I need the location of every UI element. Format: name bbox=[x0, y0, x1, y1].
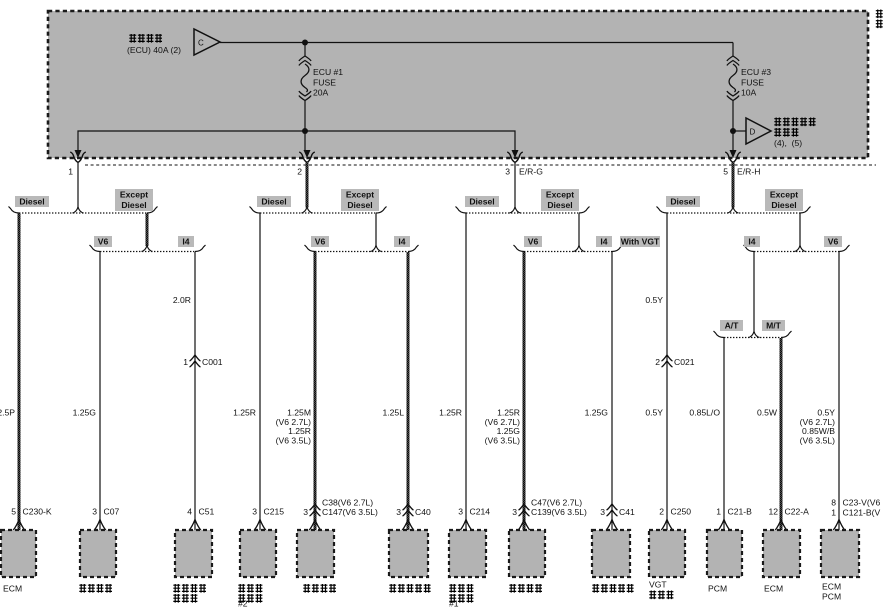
svg-text:Except: Except bbox=[770, 190, 798, 200]
svg-text:ECM: ECM bbox=[764, 584, 783, 594]
connector C51 bbox=[187, 507, 214, 517]
connector C07 bbox=[92, 507, 119, 517]
box PCM bbox=[707, 530, 742, 577]
wire 0.5W to ECM (thick) bbox=[780, 338, 783, 530]
svg-text:C121-B(V: C121-B(V bbox=[843, 508, 881, 518]
wire bbox=[732, 100, 734, 150]
svg-text:C38(V6 2.7L): C38(V6 2.7L) bbox=[322, 498, 373, 508]
fuse ECU #1 20A bbox=[299, 56, 311, 101]
brace group3 Diesel/Except bbox=[456, 207, 590, 214]
label V6 g1 bbox=[94, 236, 112, 247]
svg-text:Except: Except bbox=[120, 190, 148, 200]
engine room junction box (dashed gray) bbox=[48, 11, 868, 158]
svg-text:Diesel: Diesel bbox=[121, 200, 146, 210]
svg-text:C001: C001 bbox=[202, 357, 223, 367]
brace group4 I4/V6 bbox=[744, 245, 850, 252]
fork into box 12 bbox=[775, 520, 787, 531]
svg-text:ECM: ECM bbox=[3, 584, 22, 594]
svg-text:With VGT: With VGT bbox=[621, 237, 660, 247]
svg-text:5: 5 bbox=[11, 507, 16, 517]
box ignition coil bbox=[80, 530, 116, 577]
node: junction at fuse1 top bbox=[302, 40, 308, 46]
label ignition failure sensor bbox=[173, 584, 206, 603]
wire g4 except feed bbox=[799, 214, 801, 247]
svg-text:V6: V6 bbox=[828, 237, 839, 247]
label heater relay #2 bbox=[238, 584, 262, 609]
box ECM 2 bbox=[763, 530, 800, 577]
svg-text:Diesel: Diesel bbox=[771, 200, 796, 210]
label front O2 sensor bbox=[389, 584, 430, 593]
box ECM bbox=[1, 530, 36, 577]
svg-text:PCM: PCM bbox=[708, 584, 727, 594]
box front O2 sensor bbox=[389, 530, 428, 577]
svg-text:10A: 10A bbox=[741, 88, 757, 98]
svg-text:1: 1 bbox=[716, 507, 721, 517]
fork into box 11 bbox=[718, 520, 730, 531]
label 1.25M quad bbox=[276, 408, 311, 446]
node: junction on bus bbox=[302, 128, 308, 134]
svg-text:1: 1 bbox=[831, 508, 836, 518]
brace group2 Diesel/Except bbox=[250, 207, 387, 214]
svg-text:3: 3 bbox=[92, 507, 97, 517]
svg-text:(V6 3.5L): (V6 3.5L) bbox=[800, 435, 835, 445]
label: from fusible link (ECU) 40A (2) bbox=[127, 34, 181, 55]
label 0.5Y quad bbox=[800, 408, 836, 446]
label 1.25G w9 bbox=[585, 408, 609, 418]
svg-text:4: 4 bbox=[187, 507, 192, 517]
brace group4 A/T/M/T bbox=[714, 331, 792, 338]
svg-text:(V6 3.5L): (V6 3.5L) bbox=[485, 435, 520, 445]
label I4 g3 bbox=[596, 236, 612, 247]
wire 1.25R to heater relay 2 bbox=[259, 214, 261, 531]
svg-text:Except: Except bbox=[346, 190, 374, 200]
label Except Diesel g1 bbox=[115, 189, 153, 211]
label V6 g3 bbox=[524, 236, 542, 247]
svg-text:3: 3 bbox=[252, 507, 257, 517]
wire 1.25M/R to O2 sensor (thick) bbox=[314, 252, 317, 530]
svg-text:3: 3 bbox=[303, 507, 308, 517]
wire 0.5Y to VGT actuator bbox=[666, 214, 668, 531]
svg-text:C147(V6 3.5L): C147(V6 3.5L) bbox=[322, 507, 378, 517]
exit terminal 1 bbox=[68, 150, 86, 177]
svg-text:I4: I4 bbox=[398, 237, 405, 247]
svg-text:Except: Except bbox=[546, 190, 574, 200]
svg-text:C41: C41 bbox=[619, 507, 635, 517]
dashed boundary line bbox=[85, 164, 876, 166]
box VGT actuator bbox=[649, 530, 685, 577]
svg-text:1.25L: 1.25L bbox=[382, 408, 404, 418]
label Diesel g2 bbox=[257, 196, 291, 207]
label Diesel g3 bbox=[465, 196, 499, 207]
svg-text:C215: C215 bbox=[264, 507, 285, 517]
svg-text:V6: V6 bbox=[315, 237, 326, 247]
svg-text:Diesel: Diesel bbox=[670, 197, 695, 207]
svg-text:3: 3 bbox=[505, 167, 510, 177]
svg-text:V6: V6 bbox=[528, 237, 539, 247]
label 1.25R quad bbox=[485, 408, 521, 446]
connector C40 bbox=[396, 504, 431, 517]
svg-text:V6: V6 bbox=[98, 237, 109, 247]
label 0.5Y upper bbox=[645, 295, 663, 305]
node: junction at triangle D bbox=[730, 128, 736, 134]
fork into box 7 bbox=[460, 520, 472, 531]
svg-text:Diesel: Diesel bbox=[347, 200, 372, 210]
svg-text:20A: 20A bbox=[313, 88, 329, 98]
wire exit2 feed (thick) bbox=[306, 162, 309, 208]
svg-text:1: 1 bbox=[183, 357, 188, 367]
label heater relay #1 bbox=[449, 584, 473, 609]
fork into box 10 bbox=[661, 520, 673, 531]
svg-text:A/T: A/T bbox=[725, 321, 740, 331]
svg-text:1.25R: 1.25R bbox=[233, 408, 256, 418]
connector C22-A bbox=[768, 507, 809, 517]
svg-text:C51: C51 bbox=[199, 507, 215, 517]
wire: top feed horizontal bbox=[220, 42, 733, 44]
svg-text:ECU #1: ECU #1 bbox=[313, 67, 343, 77]
svg-text:3: 3 bbox=[396, 507, 401, 517]
svg-text:#2: #2 bbox=[238, 599, 248, 608]
svg-text:2.5P: 2.5P bbox=[0, 408, 15, 418]
fork into box 4 bbox=[254, 520, 266, 531]
wire 1.25L to front O2 sensor (thick) bbox=[407, 252, 410, 530]
svg-text:2: 2 bbox=[297, 167, 302, 177]
label 0.85L/O bbox=[689, 408, 720, 418]
label rear O2 sensor bbox=[592, 584, 633, 593]
label V6 g4 bbox=[824, 236, 842, 247]
brace group1 Diesel/Except bbox=[9, 207, 158, 214]
wire 2.0R to ignition failure sensor bbox=[194, 252, 196, 530]
fork into box 13 bbox=[833, 520, 845, 531]
connector C41 bbox=[600, 504, 635, 517]
wire exit5 feed (thick) bbox=[732, 162, 735, 208]
svg-text:C021: C021 bbox=[674, 357, 695, 367]
label: to engine room junction box (4),(5) bbox=[774, 118, 816, 149]
label V6 g2 bbox=[311, 236, 329, 247]
wire 1.25G to rear O2 sensor bbox=[611, 252, 613, 530]
svg-text:#1: #1 bbox=[449, 599, 459, 608]
exit terminal 3 E/R-G bbox=[505, 150, 543, 177]
svg-text:C139(V6 3.5L): C139(V6 3.5L) bbox=[531, 507, 587, 517]
brace group1 V6/I4 bbox=[90, 245, 206, 252]
label ignition coil bbox=[79, 584, 112, 593]
svg-text:C230-K: C230-K bbox=[23, 507, 52, 517]
svg-text:3: 3 bbox=[600, 507, 605, 517]
svg-text:2: 2 bbox=[659, 507, 664, 517]
svg-text:0.85L/O: 0.85L/O bbox=[689, 408, 720, 418]
fork into box 5 bbox=[309, 520, 321, 531]
box O2 sensor (g3) bbox=[509, 530, 545, 577]
fork into box 3 bbox=[189, 520, 201, 531]
fork into box 6 bbox=[402, 520, 414, 531]
svg-text:D: D bbox=[750, 128, 756, 137]
box ignition failure sensor bbox=[175, 530, 212, 577]
label Except Diesel g2 bbox=[341, 189, 379, 211]
triangle D (to engine room junction box) bbox=[746, 118, 771, 144]
svg-text:I4: I4 bbox=[600, 237, 607, 247]
wire g1 except feed (thick) bbox=[146, 214, 149, 247]
svg-text:Diesel: Diesel bbox=[547, 200, 572, 210]
svg-text:1.25G: 1.25G bbox=[585, 408, 609, 418]
connector C021 in-line bbox=[655, 355, 695, 367]
label I4 g2 bbox=[394, 236, 410, 247]
svg-text:(V6 3.5L): (V6 3.5L) bbox=[276, 435, 311, 445]
wire 1.25R/G to O2 sensor (thick) bbox=[523, 252, 526, 530]
svg-text:1: 1 bbox=[68, 167, 73, 177]
box heater relay #2 bbox=[240, 530, 276, 577]
wire g3 except feed bbox=[578, 214, 580, 247]
connector C214 bbox=[458, 507, 490, 517]
fork into box 1 bbox=[13, 520, 25, 531]
wire 0.85L/O to PCM bbox=[723, 338, 725, 530]
connector C23-V / C121-B bbox=[831, 498, 880, 518]
fork into box 2 bbox=[94, 520, 106, 531]
svg-text:(4), (5): (4), (5) bbox=[774, 138, 802, 148]
exit terminal 2 bbox=[297, 150, 315, 177]
svg-text:8: 8 bbox=[831, 498, 836, 508]
label Diesel g4 bbox=[666, 196, 700, 207]
brace group4 Diesel/Except bbox=[657, 207, 811, 214]
box ECM/PCM bbox=[821, 530, 859, 577]
svg-text:(ECU) 40A (2): (ECU) 40A (2) bbox=[127, 45, 181, 55]
svg-text:C: C bbox=[198, 39, 204, 48]
label I4 g1 bbox=[178, 236, 194, 247]
svg-text:C250: C250 bbox=[671, 507, 692, 517]
connector C230-K bbox=[11, 507, 52, 517]
box heater relay #1 bbox=[449, 530, 486, 577]
svg-text:0.5W: 0.5W bbox=[757, 408, 778, 418]
label 1.25L bbox=[382, 408, 404, 418]
brace group3 V6/I4 bbox=[514, 245, 623, 252]
svg-text:Diesel: Diesel bbox=[469, 197, 494, 207]
connector C250 bbox=[659, 507, 691, 517]
svg-text:E/R-H: E/R-H bbox=[737, 167, 760, 177]
label 1.25G w2 bbox=[73, 408, 97, 418]
svg-text:C214: C214 bbox=[470, 507, 491, 517]
label Except Diesel g4 bbox=[765, 189, 803, 211]
label M/T bbox=[762, 320, 785, 331]
label With VGT bbox=[620, 236, 660, 247]
svg-text:3: 3 bbox=[512, 507, 517, 517]
wire 2.5P to ECM (thick) bbox=[18, 214, 21, 531]
label 2.0R bbox=[173, 295, 191, 305]
exit terminal 5 E/R-H bbox=[723, 150, 760, 177]
label I4 g4 bbox=[744, 236, 760, 247]
svg-text:2.0R: 2.0R bbox=[173, 295, 191, 305]
svg-text:FUSE: FUSE bbox=[741, 77, 764, 87]
svg-text:VGT: VGT bbox=[649, 580, 667, 590]
wire g4 I4 feed bbox=[753, 252, 755, 332]
wire bbox=[304, 43, 306, 57]
wire g2 except feed bbox=[375, 214, 377, 247]
svg-text:E/R-G: E/R-G bbox=[519, 167, 543, 177]
connector C215 bbox=[252, 507, 284, 517]
connector C21-B bbox=[716, 507, 752, 517]
svg-text:ECM: ECM bbox=[822, 582, 841, 592]
connector C47/C139 bbox=[512, 504, 587, 517]
svg-text:Diesel: Diesel bbox=[261, 197, 286, 207]
box rear O2 sensor bbox=[592, 530, 630, 577]
svg-text:C22-A: C22-A bbox=[785, 507, 810, 517]
svg-text:0.5Y: 0.5Y bbox=[645, 408, 663, 418]
fuse ECU #3 10A bbox=[727, 56, 739, 101]
fork into box 9 bbox=[606, 520, 618, 531]
svg-text:5: 5 bbox=[723, 167, 728, 177]
brace group2 V6/I4 bbox=[305, 245, 419, 252]
label A/T bbox=[720, 320, 743, 331]
svg-text:0.5Y: 0.5Y bbox=[645, 295, 663, 305]
label Diesel g1 bbox=[15, 196, 49, 207]
wire 1.25G to ignition coil bbox=[99, 252, 101, 530]
vertical label at right edge bbox=[876, 10, 883, 19]
svg-text:1.25G: 1.25G bbox=[73, 408, 97, 418]
svg-text:ECU #3: ECU #3 bbox=[741, 67, 771, 77]
wire bbox=[304, 100, 306, 150]
connector C38/C147 bbox=[303, 504, 378, 517]
connector C001 in-line bbox=[183, 355, 223, 367]
label O2 sensor 2 bbox=[509, 584, 542, 593]
svg-text:C07: C07 bbox=[104, 507, 120, 517]
svg-text:FUSE: FUSE bbox=[313, 77, 336, 87]
svg-text:C40: C40 bbox=[415, 507, 431, 517]
svg-text:Diesel: Diesel bbox=[19, 197, 44, 207]
wire 1.25R to heater relay 1 bbox=[465, 214, 467, 531]
svg-text:I4: I4 bbox=[182, 237, 189, 247]
wire exit1 feed bbox=[77, 162, 79, 208]
svg-text:M/T: M/T bbox=[766, 321, 782, 331]
label 0.5W bbox=[757, 408, 778, 418]
svg-text:C47(V6 2.7L): C47(V6 2.7L) bbox=[531, 498, 582, 508]
label 1.25R w7 bbox=[439, 408, 462, 418]
svg-text:PCM: PCM bbox=[822, 592, 841, 602]
label Except Diesel g3 bbox=[541, 189, 579, 211]
svg-text:2: 2 bbox=[655, 357, 660, 367]
triangle C (from fusible link) bbox=[194, 29, 220, 55]
svg-text:12: 12 bbox=[768, 507, 778, 517]
label ECM PCM bbox=[822, 582, 841, 602]
fork into box 8 bbox=[518, 520, 530, 531]
svg-text:1.25R: 1.25R bbox=[439, 408, 462, 418]
svg-text:C23-V(V6: C23-V(V6 bbox=[843, 498, 881, 508]
wire bbox=[733, 130, 746, 132]
svg-text:C21-B: C21-B bbox=[728, 507, 753, 517]
label VGT actuator bbox=[649, 580, 673, 600]
wire: internal bus bbox=[78, 131, 515, 150]
label O2 sensor bbox=[303, 584, 336, 593]
label 2.5P bbox=[0, 408, 15, 418]
wire bbox=[732, 43, 734, 57]
wire 0.5Y/0.85W-B to ECM PCM bbox=[838, 252, 840, 530]
box O2 sensor (g2) bbox=[297, 530, 334, 577]
label 0.5Y lower bbox=[645, 408, 663, 418]
svg-text:3: 3 bbox=[458, 507, 463, 517]
wire exit3 feed bbox=[514, 162, 516, 208]
label 1.25R w4 bbox=[233, 408, 256, 418]
svg-text:I4: I4 bbox=[748, 237, 755, 247]
